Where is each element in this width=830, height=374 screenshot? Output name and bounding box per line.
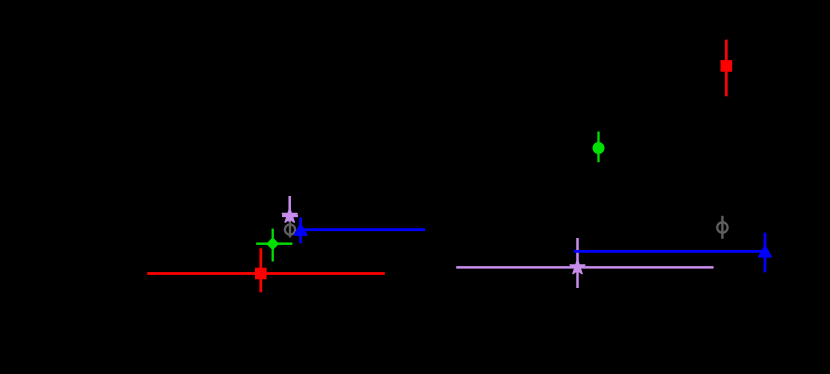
green point G: y error bar xyxy=(597,132,599,163)
red point A: y error bar xyxy=(259,248,262,292)
violet point C: star marker xyxy=(282,208,297,222)
gray point I: y error bar xyxy=(721,216,723,239)
violet point C: y error bar xyxy=(288,196,291,222)
green point B: diamond marker xyxy=(267,238,278,249)
gray point D: open circle marker xyxy=(285,225,295,235)
green point G: circle marker xyxy=(593,142,605,154)
violet point C: x error bar xyxy=(282,215,298,218)
green point B: y error bar xyxy=(272,229,274,262)
violet point H: y error bar xyxy=(576,238,579,288)
blue point E: x error bar (right side) xyxy=(301,228,426,231)
blue point E: y error bar xyxy=(299,218,302,244)
violet point H: star marker xyxy=(570,260,585,274)
red point F: y error bar xyxy=(725,40,728,97)
green point B: x error bar xyxy=(256,243,292,245)
blue point E: triangle marker xyxy=(294,224,307,235)
blue point J: x error bar (left side) xyxy=(574,250,765,253)
blue point J: y error bar xyxy=(764,233,767,273)
violet point H: x error bar xyxy=(456,266,713,269)
gray point D: y error bar xyxy=(289,222,291,238)
blue point J: triangle marker xyxy=(759,246,772,257)
gray point I: open circle marker xyxy=(717,222,727,232)
red point A: square marker xyxy=(255,268,267,280)
red point F: square marker xyxy=(721,60,733,72)
red point A: x error bar xyxy=(147,272,385,275)
